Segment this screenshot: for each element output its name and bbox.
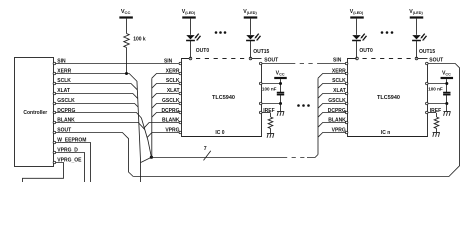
IC0 pin DCPRG: [161, 108, 181, 114]
wire bus to IC0 BLANK: [144, 123, 178, 128]
wire resistor to XERR net: [126, 48, 128, 74]
svg-text:OUT15: OUT15: [419, 49, 435, 55]
controller pin VPRG_OE: [53, 157, 82, 163]
bus trunk from controller: [137, 81, 141, 182]
ICn pin GND: [426, 102, 429, 105]
ellipsis between IC0 LEDs: [215, 31, 227, 34]
ICn terminal OUT15: [415, 49, 435, 60]
junction IC0 VCC: [279, 82, 282, 85]
wire SOUT controller return (left segment): [56, 133, 134, 177]
controller pin VPRG_D: [53, 147, 78, 153]
ground ICn IREF: [433, 133, 440, 137]
ICn pin SOUT: [426, 57, 444, 64]
wire to ICn SIN: [320, 57, 346, 63]
wire IC0 SOUT: [262, 63, 291, 65]
wire bus to ICn GSCLK: [318, 104, 346, 109]
junction XERR pull-up: [125, 72, 128, 75]
controller pin SOUT: [53, 128, 71, 134]
wire SCLK controller to bus: [56, 84, 138, 90]
wire bus to IC0 SCLK: [152, 84, 179, 89]
wire bus to ICn XLAT: [318, 94, 346, 99]
wire bus to ICn BLANK: [318, 123, 346, 128]
wire BLANK controller to bus: [56, 123, 145, 130]
ellipsis between ICn LEDs: [381, 31, 394, 34]
controller pin GSCLK: [53, 98, 75, 105]
svg-text:OUT0: OUT0: [196, 48, 210, 54]
IC0 pin SCLK: [166, 78, 182, 85]
resistor R1 100 k: [124, 34, 146, 48]
wire IREF resistor to ground: [270, 128, 272, 133]
LED on IC0 OUT0: [186, 19, 200, 41]
wire LED to IC0 OUT15: [250, 40, 252, 58]
power VCC rail at ICn: [441, 70, 454, 79]
ICn pin VCC: [426, 82, 429, 85]
svg-text:OUT15: OUT15: [253, 49, 269, 55]
ICn terminal OUT0: [356, 48, 373, 60]
junction ICn GND: [445, 102, 448, 105]
LED on ICn OUT15: [412, 19, 426, 41]
IC0 pin XERR: [166, 68, 182, 74]
wire bus to ICn VPRG: [318, 133, 346, 138]
IC0 pin XLAT: [167, 88, 182, 95]
controller pin DCPRG: [53, 108, 75, 114]
ICn pin VPRG: [332, 128, 348, 134]
wire XLAT controller to bus: [56, 94, 138, 99]
wire capacitor to ICn GND pin: [428, 95, 447, 104]
bus trunk DCPRG-BLANK: [141, 118, 151, 157]
wire bus to ICn SCLK: [318, 84, 346, 89]
wire W_EEPROM: [56, 143, 91, 183]
ICn pin IREF: [426, 108, 442, 114]
wire bus to IC0 DCPRG: [152, 113, 179, 118]
IC0 terminal OUT0: [189, 48, 209, 60]
svg-text:100 nF: 100 nF: [428, 86, 443, 91]
ICn pin SCLK: [332, 78, 348, 85]
wire ICn IREF resistor to ground: [436, 128, 438, 132]
resistor R IREF ICn: [434, 117, 439, 128]
svg-text:SOUT: SOUT: [264, 57, 278, 63]
svg-text:100 k: 100 k: [133, 37, 146, 43]
wire SOUT dashed (omitted devices): [291, 63, 320, 65]
svg-text:IC n: IC n: [381, 130, 390, 136]
resistor R IREF IC0: [268, 117, 273, 128]
svg-text:GSCLK: GSCLK: [162, 98, 180, 104]
svg-text:XLAT: XLAT: [167, 88, 180, 94]
IC0 pin VPRG: [165, 128, 181, 134]
ICn pin SIN: [345, 62, 348, 65]
ICn pin DCPRG: [328, 108, 348, 114]
controller pin XLAT: [53, 88, 70, 95]
power V(LED) rail over ICn OUT15: [409, 9, 423, 18]
wire IC0 VCC pin to rail: [262, 79, 281, 92]
wire ICn GND junction down: [446, 103, 448, 112]
IC0 pin BLANK: [162, 118, 182, 124]
svg-text:DCPRG: DCPRG: [161, 108, 179, 114]
svg-text:IC 0: IC 0: [215, 130, 224, 136]
wire IC0 IREF: [262, 113, 271, 118]
power V(LED) rail over ICn OUT0: [350, 9, 364, 18]
svg-text:BLANK: BLANK: [162, 118, 180, 124]
wire ICn SOUT return loop: [133, 64, 459, 177]
IC0 pin GSCLK: [162, 98, 182, 105]
wire ICn VCC pin to rail: [428, 79, 447, 92]
ground ICn bypass: [443, 112, 450, 116]
power V(LED) rail over IC0 OUT15: [243, 9, 257, 18]
junction ICn VCC: [445, 82, 448, 85]
IC0 pin VCC: [259, 82, 262, 85]
bus trunk to ICn: [317, 78, 319, 154]
wire bus to ICn XERR: [318, 74, 346, 79]
bus width slash: [204, 146, 211, 161]
wire VPRG_OE: [23, 163, 64, 183]
ground IC0 bypass: [277, 112, 284, 116]
svg-text:SIN: SIN: [333, 57, 342, 63]
controller pin SIN: [53, 58, 66, 64]
wire VCC to resistor: [126, 19, 128, 34]
wire LED to IC0 OUT0: [190, 40, 192, 58]
bus line dashed continuation: [283, 157, 307, 159]
ICn pin XERR: [332, 68, 348, 74]
svg-text:TLC5940: TLC5940: [212, 95, 235, 101]
svg-text:100 nF: 100 nF: [262, 86, 277, 91]
wire SIN controller to IC 0: [56, 63, 179, 65]
wire ICn IREF: [428, 113, 437, 118]
bus line to IC n: [307, 155, 318, 158]
svg-text:VPRG: VPRG: [165, 128, 179, 134]
IC0 pin IREF: [259, 108, 274, 114]
IC U3 TLC5940 box (IC n): [348, 59, 428, 137]
power V(LED) rail over IC0 OUT0: [182, 9, 196, 18]
IC0 terminal OUT15: [249, 49, 269, 60]
wire VPRG_D: [56, 153, 85, 183]
power VCC rail at IC0: [274, 70, 287, 79]
IC0 pin SIN: [164, 58, 182, 64]
wire GND junction down: [280, 103, 282, 112]
ICn pin XLAT: [333, 88, 348, 95]
svg-text:Controller: Controller: [23, 110, 47, 116]
bus trunk to IC0: [150, 78, 152, 157]
wire LED to ICn OUT15: [416, 40, 418, 58]
ellipsis between IC0 and IC n: [297, 104, 310, 107]
node bus junction: [150, 156, 153, 159]
wire bus to IC0 XLAT: [152, 94, 179, 99]
LED on IC0 OUT15: [246, 19, 260, 41]
controller U1 box: [15, 58, 54, 167]
wire XERR controller to bus: [56, 74, 137, 82]
svg-text:SOUT: SOUT: [429, 57, 443, 63]
svg-text:VCC: VCC: [121, 9, 131, 15]
wire bus to IC0 VPRG: [147, 133, 179, 138]
controller pin BLANK: [53, 118, 75, 124]
junction IC0 GND: [279, 102, 282, 105]
controller pin W_EEPROM: [53, 138, 86, 144]
bus trunk junction diagonal: [141, 157, 152, 162]
capacitor C2 100 nF: [428, 86, 450, 94]
controller pin SCLK: [53, 78, 71, 85]
wire bus to ICn DCPRG: [318, 113, 346, 118]
svg-text:XERR: XERR: [166, 68, 180, 74]
wire capacitor to GND pin: [262, 95, 281, 104]
ground IC0 IREF: [267, 134, 274, 138]
wire bus to IC0 XERR: [152, 74, 179, 79]
LED on ICn OUT0: [352, 19, 366, 41]
IC U2 TLC5940 box (IC 0): [182, 59, 262, 137]
svg-text:TLC5940: TLC5940: [377, 95, 400, 101]
wire bus to IC0 GSCLK: [152, 104, 179, 109]
power VCC rail: [119, 9, 133, 18]
bus line 7 signals: [151, 157, 283, 159]
IC0 pin GND: [259, 102, 262, 105]
svg-text:SCLK: SCLK: [166, 78, 180, 84]
ICn pin BLANK: [328, 118, 348, 124]
IC0 pin SOUT: [259, 57, 278, 64]
svg-text:SIN: SIN: [164, 58, 173, 64]
controller pin XERR: [53, 68, 71, 74]
wire DCPRG controller to bus: [56, 113, 142, 119]
capacitor C1 100 nF: [262, 86, 284, 94]
wire GSCLK controller to bus: [56, 104, 138, 107]
wire LED to ICn OUT0: [356, 40, 358, 58]
svg-text:7: 7: [204, 146, 207, 152]
svg-text:OUT0: OUT0: [359, 48, 373, 54]
ICn pin GSCLK: [328, 98, 348, 105]
